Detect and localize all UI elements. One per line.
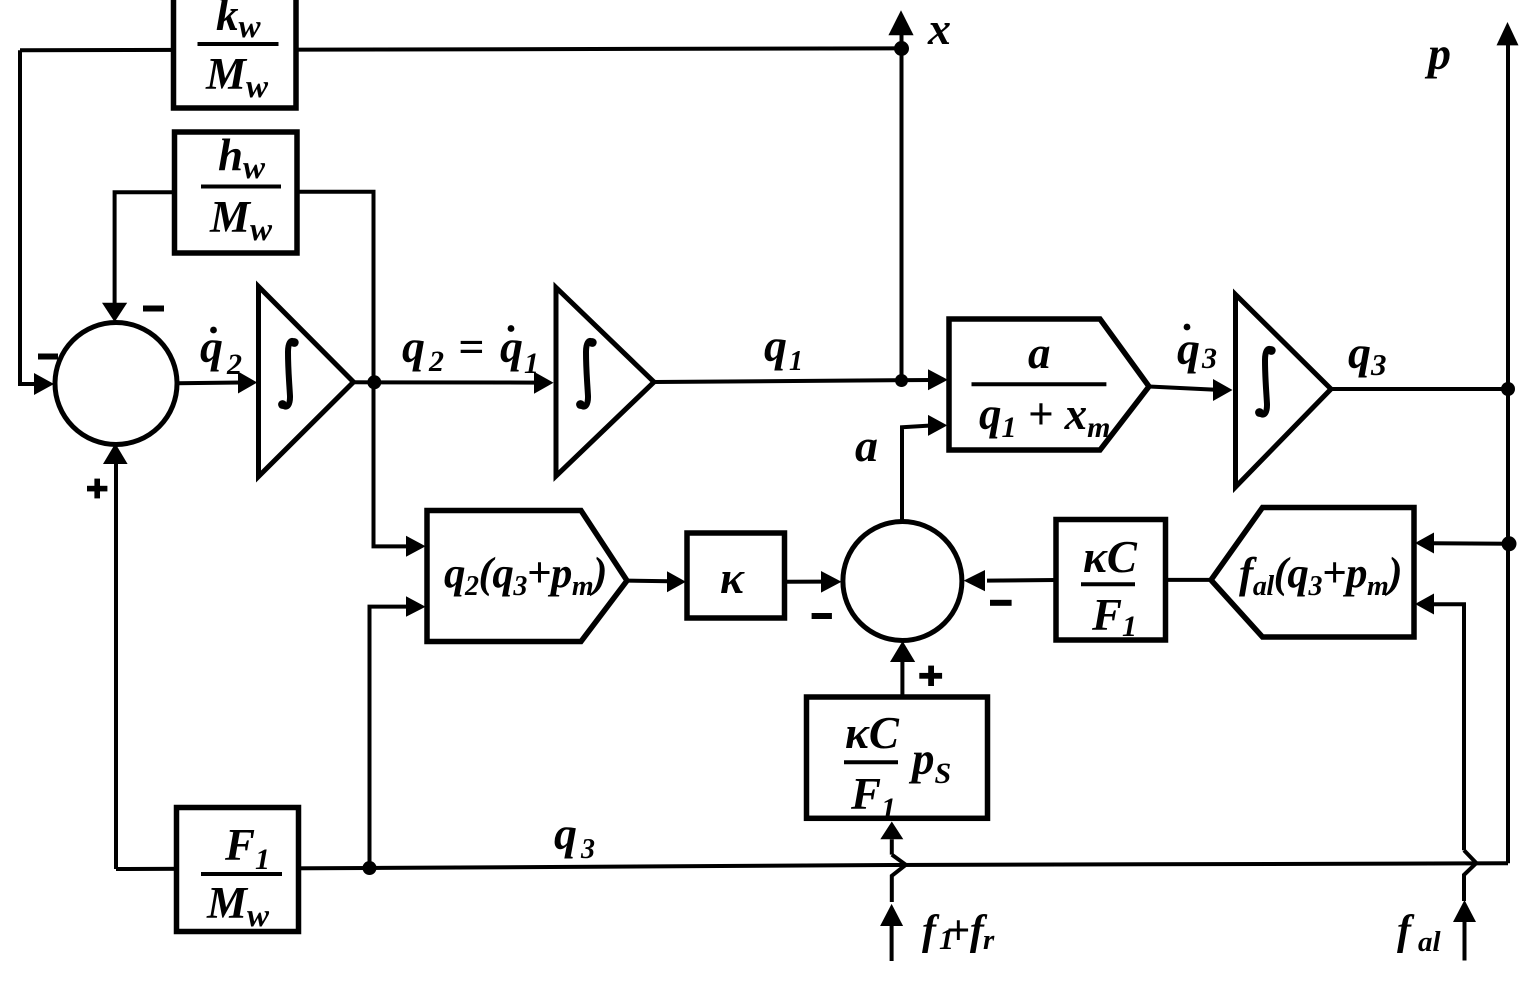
svg-text:q: q xyxy=(554,808,577,859)
svg-text:κ: κ xyxy=(720,553,745,603)
svg-text:r: r xyxy=(983,924,995,956)
svg-text:2: 2 xyxy=(428,345,444,378)
svg-text:q: q xyxy=(764,320,787,371)
svg-text:p: p xyxy=(1424,28,1451,79)
svg-text:1: 1 xyxy=(789,346,803,377)
svg-text:=: = xyxy=(458,321,484,372)
svg-text:3: 3 xyxy=(580,834,595,865)
svg-text:a: a xyxy=(855,420,878,471)
svg-text:q: q xyxy=(402,321,425,372)
svg-text:x: x xyxy=(927,3,951,54)
svg-text:3: 3 xyxy=(1370,347,1387,382)
svg-text:q: q xyxy=(1348,327,1371,378)
svg-text:1: 1 xyxy=(524,347,539,380)
svg-text:a: a xyxy=(1028,328,1051,378)
svg-text:q: q xyxy=(1177,323,1200,374)
svg-text:+f: +f xyxy=(946,908,988,954)
svg-text:3: 3 xyxy=(1201,342,1217,375)
svg-text:κC: κC xyxy=(1083,532,1138,582)
svg-text:κC: κC xyxy=(845,708,900,758)
svg-text:al: al xyxy=(1418,926,1442,958)
svg-text:2: 2 xyxy=(226,348,242,381)
